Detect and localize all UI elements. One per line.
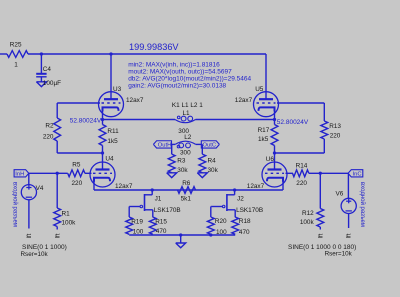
- svg-text:52.80024V: 52.80024V: [277, 119, 309, 126]
- svg-text:1k5: 1k5: [107, 138, 118, 145]
- svg-text:Rser=10k: Rser=10k: [325, 250, 353, 257]
- svg-text:12ax7: 12ax7: [235, 97, 253, 104]
- svg-text:U4: U4: [105, 155, 114, 162]
- svg-text:30k: 30k: [177, 167, 188, 174]
- svg-text:220: 220: [296, 180, 307, 187]
- svg-text:InC: InC: [353, 172, 362, 178]
- svg-text:R13: R13: [329, 123, 341, 130]
- svg-text:470: 470: [156, 228, 167, 235]
- svg-text:J2: J2: [237, 195, 244, 202]
- svg-text:R25: R25: [10, 42, 22, 49]
- svg-text:V6: V6: [336, 191, 344, 198]
- svg-text:R5: R5: [72, 162, 81, 169]
- svg-text:R2: R2: [45, 123, 54, 130]
- svg-text:lft: lft: [319, 233, 325, 238]
- svg-text:30k: 30k: [208, 167, 219, 174]
- svg-text:100k: 100k: [300, 219, 315, 226]
- svg-text:R3: R3: [177, 158, 186, 165]
- svg-text:R4: R4: [208, 158, 217, 165]
- svg-text:V4: V4: [36, 185, 44, 192]
- svg-text:220: 220: [330, 133, 341, 140]
- svg-text:52.80024V: 52.80024V: [70, 118, 102, 125]
- svg-text:300: 300: [180, 149, 191, 156]
- svg-text:K1 L1 L2 1: K1 L1 L2 1: [172, 102, 203, 109]
- svg-text:J1: J1: [155, 195, 162, 202]
- svg-text:100k: 100k: [62, 220, 77, 227]
- svg-text:lft: lft: [27, 233, 33, 238]
- svg-text:R18: R18: [239, 218, 251, 225]
- svg-text:R19: R19: [131, 219, 143, 226]
- svg-text:InH: InH: [15, 172, 24, 178]
- svg-text:min2: MAX(v(inh, inc))=1.81816: min2: MAX(v(inh, inc))=1.81816: [128, 62, 220, 69]
- svg-text:входной разъем: входной разъем: [359, 182, 366, 227]
- svg-text:R6: R6: [182, 180, 191, 187]
- svg-text:R12: R12: [302, 210, 314, 217]
- svg-text:lft: lft: [56, 233, 62, 238]
- svg-text:R15: R15: [155, 219, 167, 226]
- svg-text:12ax7: 12ax7: [126, 97, 144, 104]
- svg-text:1k5: 1k5: [258, 136, 269, 143]
- svg-text:100µF: 100µF: [43, 80, 61, 87]
- svg-text:gain2: AVG(mout2/min2)=30.0138: gain2: AVG(mout2/min2)=30.0138: [128, 83, 226, 90]
- svg-text:L2: L2: [184, 134, 192, 141]
- svg-text:SINE(0 1 1000): SINE(0 1 1000): [22, 244, 67, 251]
- svg-text:mout2: MAX(v(outh, outc))=54.5: mout2: MAX(v(outh, outc))=54.5697: [128, 69, 232, 76]
- svg-text:12ax7: 12ax7: [115, 183, 133, 190]
- svg-text:LSK170B: LSK170B: [154, 207, 181, 214]
- svg-text:220: 220: [72, 180, 83, 187]
- svg-text:OutH: OutH: [158, 143, 172, 149]
- svg-text:U3: U3: [113, 86, 122, 93]
- svg-text:U6: U6: [266, 156, 275, 163]
- svg-text:220: 220: [43, 134, 54, 141]
- svg-text:C4: C4: [43, 66, 52, 73]
- svg-text:R1: R1: [62, 210, 71, 217]
- svg-text:lft: lft: [347, 233, 353, 238]
- svg-text:R11: R11: [107, 128, 119, 135]
- svg-text:199.99836V: 199.99836V: [129, 42, 179, 52]
- svg-text:R20: R20: [215, 218, 227, 225]
- svg-text:db2: AVG(20*log10(mout2/min2)): db2: AVG(20*log10(mout2/min2))=29.5464: [128, 76, 251, 83]
- svg-text:R17: R17: [258, 127, 270, 134]
- svg-text:Rser=10k: Rser=10k: [21, 251, 49, 258]
- svg-text:OutC: OutC: [203, 143, 217, 149]
- svg-text:1: 1: [14, 62, 18, 69]
- svg-text:U5: U5: [255, 86, 264, 93]
- svg-text:L1: L1: [183, 110, 191, 117]
- svg-text:470: 470: [239, 229, 250, 236]
- svg-text:12ax7: 12ax7: [247, 183, 265, 190]
- svg-text:входной разъем: входной разъем: [11, 182, 18, 227]
- svg-text:LSK170B: LSK170B: [236, 207, 263, 214]
- svg-text:5k1: 5k1: [181, 196, 192, 203]
- svg-text:R14: R14: [296, 162, 308, 169]
